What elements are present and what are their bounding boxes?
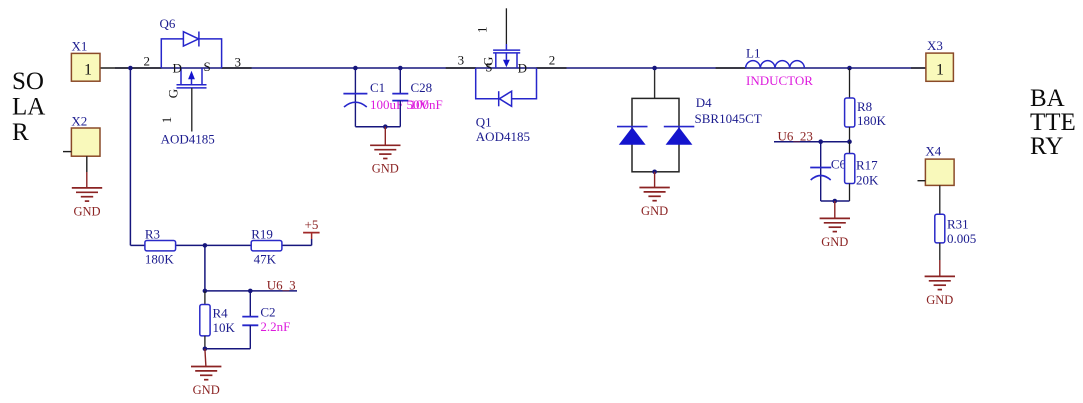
svg-text:AOD4185: AOD4185 [161,132,215,147]
svg-text:D: D [518,60,527,75]
capacitor C2 [242,291,290,349]
svg-text:U6_23: U6_23 [778,128,813,143]
svg-text:INDUCTOR: INDUCTOR [746,73,813,88]
inductor L1 [746,45,814,88]
svg-text:X4: X4 [925,143,941,158]
node L1-R8 junction [847,66,852,71]
wire left branch down from X1 node [129,68,131,245]
svg-text:Q6: Q6 [160,16,176,31]
svg-text:2: 2 [549,53,556,68]
wire net U6_23 [774,141,850,143]
svg-text:S: S [204,59,211,74]
node C2 tap [248,289,253,294]
node C28 junction [398,66,403,71]
wire main rail [115,67,926,69]
svg-text:X1: X1 [72,38,88,53]
connector X4 [918,143,955,214]
svg-text:SOLAR: SOLAR [12,68,45,146]
svg-text:C28: C28 [411,80,433,95]
svg-text:GND: GND [372,162,399,176]
node D4 rail junction [652,66,657,71]
capacitor C28 [392,68,442,127]
connector X3 [926,38,954,81]
transistor Q1 [474,8,536,144]
connector X1 [71,38,100,81]
resistor R17 [845,142,879,201]
svg-text:47K: 47K [254,251,277,266]
wire divider mid branch [204,245,206,291]
svg-text:20K: 20K [856,172,879,187]
svg-text:L1: L1 [746,45,760,60]
svg-text:BATTERY: BATTERY [1030,85,1076,160]
svg-text:R17: R17 [856,158,878,173]
resistor R8 [845,68,887,142]
svg-text:2.2nF: 2.2nF [260,319,290,334]
wire R4-C2 bottom [205,348,250,350]
diode D4 [617,68,762,172]
wire net U6_3 [205,290,297,292]
connector X2 [63,113,100,172]
resistor R31 [935,214,976,260]
svg-text:R3: R3 [145,226,160,241]
ground GND (C1 C28) [370,127,400,176]
wire pin stubs on rail (black) [100,67,926,69]
svg-text:180K: 180K [857,113,887,128]
node R3-R19 junction [203,243,208,248]
resistor R19 [251,226,282,266]
svg-text:1: 1 [936,61,944,78]
svg-text:0.005: 0.005 [947,231,976,246]
node C1 junction [353,66,358,71]
svg-text:D: D [173,61,182,76]
svg-text:AOD4185: AOD4185 [476,129,530,144]
ground GND (R31) [925,260,955,307]
capacitor C1 [343,68,429,127]
svg-text:C1: C1 [370,80,385,95]
svg-text:180K: 180K [145,251,175,266]
resistor R4 [200,291,236,349]
svg-text:2: 2 [144,54,151,69]
ground GND (X2) [72,172,102,218]
svg-text:10K: 10K [213,320,236,335]
ground GND (D4) [639,172,669,218]
svg-text:GND: GND [821,235,848,249]
svg-text:SBR1045CT: SBR1045CT [695,111,762,126]
svg-text:GND: GND [641,204,668,218]
svg-text:U6_3: U6_3 [267,278,296,293]
svg-text:R19: R19 [251,226,273,241]
svg-text:100nF: 100nF [410,97,443,112]
wire C6-R17 bottom [821,200,850,202]
svg-text:D4: D4 [696,95,712,110]
svg-text:1: 1 [474,27,489,34]
svg-text:R8: R8 [857,99,872,114]
node X1 junction [128,66,133,71]
svg-text:3: 3 [235,55,242,70]
node R4 bottom junction [203,347,208,352]
svg-text:+5: +5 [305,217,319,232]
svg-text:1: 1 [84,62,92,79]
svg-text:3: 3 [458,53,465,68]
transistor Q6 [159,16,222,147]
svg-text:X3: X3 [927,38,943,53]
power +5 [303,217,320,239]
wire C1-C28 bottom [355,126,400,128]
node R4 top junction [203,289,208,294]
svg-text:Q1: Q1 [476,115,492,130]
svg-text:C2: C2 [260,305,275,320]
wire R3 row [130,239,311,245]
resistor R3 [145,226,176,266]
svg-text:G: G [480,57,495,66]
node R8-R17 junction [847,139,852,144]
svg-text:GND: GND [73,204,100,218]
svg-text:GND: GND [926,293,953,307]
svg-text:X2: X2 [71,113,87,128]
svg-text:R4: R4 [213,306,229,321]
ground GND (C6 R17) [820,201,850,249]
svg-text:G: G [166,89,181,98]
svg-text:1: 1 [159,117,174,124]
svg-text:GND: GND [193,383,220,397]
node C6 tap [818,139,823,144]
node C6R17 gnd tap [833,199,838,204]
svg-text:R31: R31 [947,217,969,232]
ground GND (R4 C2) [191,349,221,397]
capacitor C6 [810,142,846,201]
node C1C28 gnd tap [383,124,388,129]
node D4 bottom junction [652,170,657,175]
